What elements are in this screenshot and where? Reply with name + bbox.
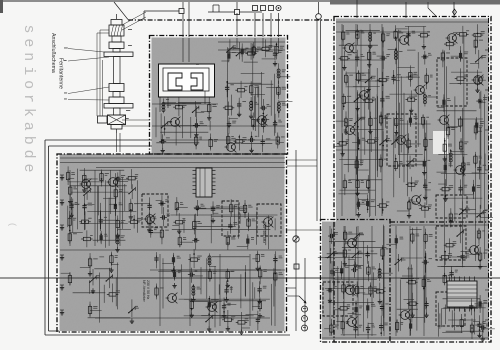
svg-text:(: ( bbox=[7, 222, 17, 227]
svg-text:seniorkabde: seniorkabde bbox=[20, 25, 37, 178]
svg-text:Ferritantenne: Ferritantenne bbox=[58, 58, 64, 89]
svg-text:ZF 460 kHz: ZF 460 kHz bbox=[262, 225, 266, 243]
svg-text:Anschlußschema: Anschlußschema bbox=[50, 33, 56, 73]
svg-text:NF-Verstärker: NF-Verstärker bbox=[142, 280, 146, 303]
svg-text:230 V 50 Hz: 230 V 50 Hz bbox=[146, 280, 150, 300]
